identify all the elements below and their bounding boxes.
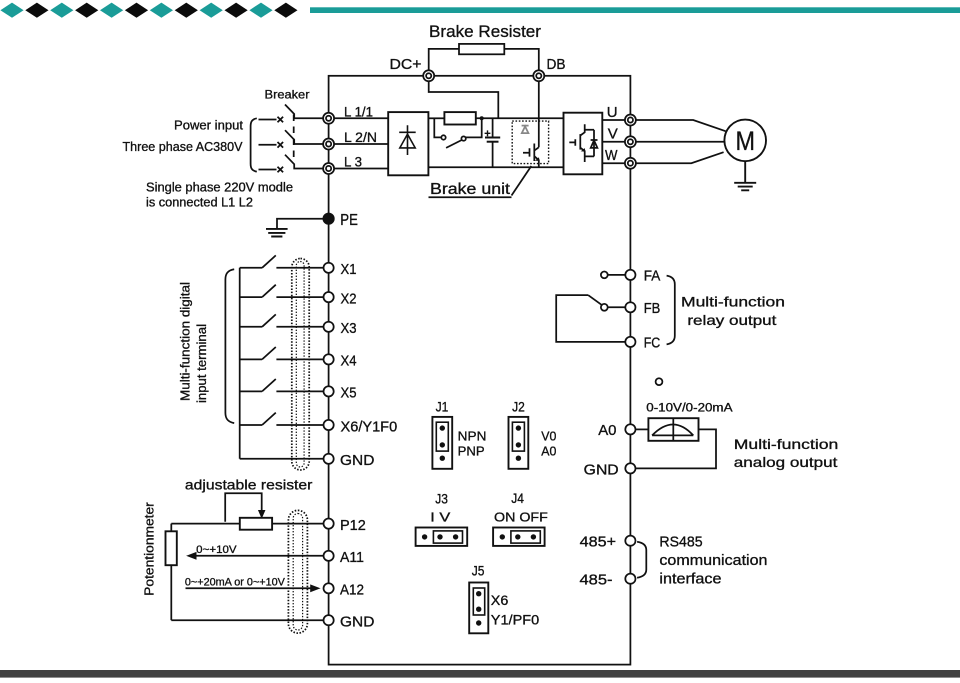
svg-text:Potentionmeter: Potentionmeter bbox=[143, 502, 157, 596]
node spare circle bbox=[656, 378, 663, 385]
svg-text:L 1/1: L 1/1 bbox=[344, 105, 373, 120]
bracket digital inputs bbox=[225, 269, 234, 423]
inverter IGBT module box bbox=[564, 113, 603, 175]
teal top bar bbox=[310, 7, 960, 13]
wire U output bbox=[602, 119, 625, 121]
breaker pole L2 bbox=[259, 130, 324, 147]
svg-text:X2: X2 bbox=[341, 290, 357, 307]
label Multi-function digital input terminal (vertical) bbox=[179, 282, 209, 403]
svg-text:FB: FB bbox=[644, 301, 661, 317]
transistor inverter IGBT with diode bbox=[569, 124, 597, 162]
svg-text:I V: I V bbox=[430, 510, 450, 525]
wire A0 to meter bbox=[635, 428, 648, 430]
svg-text:RS485: RS485 bbox=[659, 535, 702, 551]
wire DC bus bottom bbox=[429, 166, 564, 168]
svg-text:DC+: DC+ bbox=[390, 56, 422, 73]
svg-text:J3: J3 bbox=[435, 492, 448, 507]
terminal 485- bbox=[580, 572, 636, 589]
svg-text:NPN: NPN bbox=[458, 428, 487, 443]
relay contact FB bbox=[601, 304, 626, 311]
label Breaker bbox=[265, 88, 310, 102]
wire GND digital bbox=[240, 458, 324, 460]
wire A12 with arrow bbox=[185, 577, 319, 592]
wire meter to GND bbox=[635, 429, 716, 468]
terminal DC+ bbox=[390, 56, 435, 81]
wire potentiometer bottom bbox=[170, 565, 172, 620]
svg-text:Y1/PF0: Y1/PF0 bbox=[491, 613, 539, 628]
svg-text:A0: A0 bbox=[541, 443, 556, 458]
switch X3 bbox=[240, 314, 324, 326]
potentiometer body bbox=[166, 531, 177, 565]
terminal L2/N bbox=[323, 130, 377, 149]
label Three phase AC380V bbox=[123, 139, 243, 154]
svg-text:0-10V/0-20mA: 0-10V/0-20mA bbox=[646, 403, 733, 415]
svg-text:J4: J4 bbox=[511, 491, 524, 506]
label Single phase note bbox=[146, 181, 293, 210]
meter analog output bbox=[648, 418, 698, 441]
terminal GND digital bbox=[324, 452, 375, 469]
svg-text:is connected L1 L2: is connected L1 L2 bbox=[146, 196, 253, 210]
svg-text:J1: J1 bbox=[436, 400, 449, 415]
terminal U bbox=[607, 104, 636, 126]
svg-text:V: V bbox=[608, 125, 618, 142]
svg-text:W: W bbox=[605, 147, 618, 164]
relay common path bbox=[556, 295, 625, 342]
wire V to motor bbox=[636, 141, 724, 143]
relay contact FA bbox=[601, 272, 626, 279]
wire W output bbox=[602, 162, 625, 164]
svg-text:Three phase AC380V: Three phase AC380V bbox=[123, 139, 243, 154]
wire DC+ to bus bbox=[429, 81, 499, 118]
shield capsule analog inner bbox=[293, 514, 302, 631]
svg-text:X1: X1 bbox=[341, 261, 357, 278]
svg-text:485-: 485- bbox=[580, 572, 613, 589]
shield capsule digital inner bbox=[296, 262, 304, 468]
motor M bbox=[724, 120, 766, 162]
pointer adjustable resister bbox=[225, 493, 265, 522]
svg-text:input terminal: input terminal bbox=[195, 324, 209, 403]
terminal V bbox=[608, 125, 636, 147]
wire brake resistor loop bbox=[429, 49, 539, 70]
wire digital input bus bbox=[239, 268, 241, 459]
wire W to motor bbox=[636, 152, 724, 163]
svg-text:ON OFF: ON OFF bbox=[494, 509, 548, 524]
svg-text:M: M bbox=[735, 126, 755, 156]
transistor brake IGBT bbox=[523, 81, 539, 167]
svg-text:X3: X3 bbox=[341, 320, 357, 337]
svg-text:FA: FA bbox=[644, 268, 661, 284]
svg-text:X6: X6 bbox=[491, 593, 509, 608]
terminal A0 bbox=[598, 422, 635, 439]
svg-text:P12: P12 bbox=[340, 517, 366, 534]
ground motor bbox=[734, 161, 756, 190]
svg-text:Brake unit: Brake unit bbox=[430, 181, 511, 198]
svg-text:Brake Resister: Brake Resister bbox=[429, 22, 541, 41]
breaker link dashed bbox=[293, 115, 295, 161]
decorative diamond band bbox=[0, 3, 960, 18]
svg-text:analog output: analog output bbox=[734, 454, 838, 470]
label 0-10V/0-20mA bbox=[646, 403, 733, 415]
bracket relay output bbox=[667, 276, 675, 345]
svg-text:Power input: Power input bbox=[174, 118, 243, 133]
svg-text:GND: GND bbox=[340, 452, 374, 469]
diode brake indicator (gray) bbox=[522, 126, 529, 134]
svg-text:485+: 485+ bbox=[580, 534, 617, 551]
svg-text:Single phase 220V modle: Single phase 220V modle bbox=[146, 181, 293, 195]
label Brake unit bbox=[429, 166, 532, 198]
shield capsule digital outer bbox=[292, 259, 309, 471]
terminal X3 bbox=[324, 320, 357, 337]
wire DC bus top bbox=[429, 117, 564, 119]
terminal FB bbox=[625, 301, 660, 317]
svg-text:L 3: L 3 bbox=[344, 155, 362, 170]
svg-text:J2: J2 bbox=[512, 400, 525, 415]
svg-text:0~+10V: 0~+10V bbox=[196, 544, 237, 556]
resistor adjustable bbox=[240, 518, 272, 530]
svg-text:0~+20mA or 0~+10V: 0~+20mA or 0~+10V bbox=[185, 577, 286, 589]
breaker pole L1 bbox=[259, 105, 324, 123]
terminal W bbox=[605, 147, 636, 169]
jumper J2 bbox=[509, 400, 557, 469]
svg-text:Breaker: Breaker bbox=[265, 88, 310, 102]
svg-text:U: U bbox=[607, 104, 618, 121]
svg-text:interface: interface bbox=[659, 572, 721, 588]
terminal L1/1 bbox=[323, 105, 373, 124]
svg-text:DB: DB bbox=[547, 56, 566, 73]
jumper J5 bbox=[469, 564, 539, 634]
terminal X4 bbox=[324, 353, 357, 370]
wire A11 with arrow bbox=[188, 544, 324, 559]
wire L1 to rectifier bbox=[334, 117, 388, 119]
label adjustable resister bbox=[185, 477, 313, 493]
svg-text:Multi-function digital: Multi-function digital bbox=[179, 282, 193, 401]
svg-text:Multi-function: Multi-function bbox=[734, 436, 839, 452]
resistor brake (Brake Resister) bbox=[429, 22, 541, 54]
terminal FA bbox=[625, 268, 660, 284]
svg-text:PNP: PNP bbox=[458, 443, 485, 458]
svg-text:L 2/N: L 2/N bbox=[344, 130, 377, 145]
switch X1 bbox=[240, 255, 324, 267]
jumper J1 bbox=[432, 400, 486, 469]
terminal X5 bbox=[324, 385, 357, 402]
bracket RS485 bbox=[637, 542, 646, 578]
switch X4 bbox=[240, 347, 324, 359]
label Multi-function relay output bbox=[681, 294, 785, 329]
svg-text:GND: GND bbox=[584, 462, 619, 479]
label Potentionmeter (vertical) bbox=[143, 502, 157, 596]
jumper J3 bbox=[416, 492, 468, 546]
terminal FC bbox=[625, 335, 660, 351]
terminal DB bbox=[533, 56, 565, 81]
breaker pole L3 bbox=[259, 155, 324, 173]
terminal PE bbox=[323, 212, 358, 229]
wire GND analog bbox=[171, 619, 323, 621]
bracket power input bbox=[251, 118, 257, 171]
wire potentiometer top bbox=[170, 524, 172, 532]
label Multi-function analog output bbox=[734, 436, 839, 470]
svg-text:GND: GND bbox=[340, 614, 374, 631]
svg-text:J5: J5 bbox=[472, 564, 485, 579]
bottom gray bar bbox=[0, 670, 960, 678]
switch X6 bbox=[240, 413, 324, 425]
resistor pre-charge bbox=[444, 112, 475, 124]
terminal L3 bbox=[323, 155, 362, 174]
switch X5 bbox=[240, 379, 324, 391]
terminal X2 bbox=[324, 290, 357, 307]
wire L3 to rectifier bbox=[334, 168, 388, 170]
relay bypass contact bbox=[434, 118, 481, 148]
svg-text:relay output: relay output bbox=[687, 312, 776, 328]
terminal 485+ bbox=[580, 534, 636, 551]
terminal GND right bbox=[584, 462, 636, 479]
svg-text:adjustable resister: adjustable resister bbox=[185, 477, 313, 493]
switch X2 bbox=[240, 285, 324, 297]
svg-text:A11: A11 bbox=[340, 549, 364, 566]
jumper J4 bbox=[493, 491, 548, 546]
svg-text:PE: PE bbox=[340, 212, 358, 229]
shield capsule analog outer bbox=[288, 510, 307, 633]
label Power input bbox=[174, 118, 243, 133]
terminal GND analog bbox=[324, 614, 375, 631]
rectifier bridge bbox=[388, 112, 428, 175]
terminal A11 bbox=[324, 549, 365, 566]
ground PE bbox=[266, 219, 323, 237]
wire P12 bbox=[171, 523, 323, 525]
terminal P12 bbox=[324, 517, 366, 534]
terminal X1 bbox=[324, 261, 357, 278]
terminal A12 bbox=[324, 582, 365, 599]
svg-text:FC: FC bbox=[644, 335, 661, 351]
svg-text:X5: X5 bbox=[341, 385, 357, 402]
label RS485 communication interface bbox=[659, 535, 767, 588]
wire V output bbox=[602, 141, 625, 143]
node DC bus junction bbox=[480, 116, 484, 120]
svg-text:V0: V0 bbox=[541, 428, 556, 443]
wire U to motor bbox=[636, 120, 726, 131]
svg-text:X4: X4 bbox=[341, 353, 357, 370]
inverter enclosure outline bbox=[329, 76, 631, 665]
brake unit dashed box bbox=[512, 121, 548, 164]
svg-text:A12: A12 bbox=[340, 582, 364, 599]
svg-text:X6/Y1F0: X6/Y1F0 bbox=[341, 418, 398, 435]
svg-text:A0: A0 bbox=[598, 422, 616, 439]
terminal X6/Y1F0 bbox=[324, 418, 398, 435]
wire L2 to rectifier bbox=[334, 143, 388, 145]
svg-text:Multi-function: Multi-function bbox=[681, 294, 785, 310]
svg-text:communication: communication bbox=[659, 553, 767, 569]
capacitor DC link bbox=[485, 118, 501, 167]
